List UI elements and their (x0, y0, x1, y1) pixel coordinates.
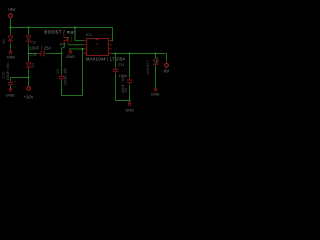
wire C4 column (61, 54, 63, 75)
svg-text:C8: C8 (124, 88, 128, 93)
wire +9V stub down (10, 18, 12, 27)
op-amp IC1 body (87, 39, 109, 56)
node +9V junction (9, 26, 11, 28)
svg-text:+18V: +18V (24, 94, 34, 99)
wire pin3 GND row (69, 48, 84, 50)
power -9V (166, 60, 168, 63)
svg-text:1N5817: 1N5817 (146, 60, 150, 75)
wire pin2 row (68, 44, 84, 46)
wire C8 column bottom (129, 85, 131, 100)
svg-text:D10: D10 (155, 57, 159, 63)
node junction D10 (154, 52, 156, 54)
wire C8 column top (129, 54, 131, 78)
wire D2 column top (28, 28, 30, 35)
svg-text:C10: C10 (1, 71, 5, 78)
svg-text:GND: GND (6, 92, 15, 97)
wire D10 column (155, 54, 157, 59)
wire pin1 row (75, 28, 84, 41)
wire D10 bottom (155, 65, 157, 87)
wire C15 row right (46, 53, 61, 55)
diode D10 (153, 60, 157, 66)
node junction C8 (128, 52, 130, 54)
node junction C3 row (27, 76, 29, 78)
svg-text:IC1: IC1 (86, 32, 92, 37)
wire C3 row (11, 77, 29, 79)
IC pins left (84, 41, 87, 54)
node junction x82.5 (81, 48, 83, 50)
wire C11 column top (115, 54, 117, 68)
node junction C15 row (27, 52, 29, 54)
svg-text:C4: C4 (56, 69, 60, 74)
wire D1 to ground (10, 44, 12, 49)
svg-text:2: 2 (71, 39, 73, 43)
svg-text:GND: GND (66, 54, 75, 59)
svg-text:10uF / 25v: 10uF / 25v (29, 45, 52, 50)
wire C3 column (10, 78, 12, 81)
jumper JP4 (64, 34, 69, 45)
wire C15 row left (29, 53, 38, 55)
node junction x75 (74, 26, 76, 28)
svg-text:MAX1044 | LT1054: MAX1044 | LT1054 (86, 56, 125, 61)
node junction GND right (128, 99, 130, 101)
svg-text:+: + (63, 69, 65, 73)
wire C11 column bottom (116, 74, 130, 100)
capacitor C8 (127, 77, 132, 85)
power +9V (9, 14, 13, 18)
capacitor C3 (8, 80, 13, 85)
node junction x28 (27, 26, 29, 28)
node junction C4 top (60, 52, 62, 54)
svg-text:GND: GND (151, 91, 160, 96)
svg-text:D2: D2 (31, 40, 35, 44)
capacitor C4 (59, 74, 64, 81)
wire pin8 to rail (111, 28, 112, 41)
ground G5 (9, 89, 12, 92)
wire jumper to node (62, 43, 65, 54)
ground G4 (128, 101, 131, 106)
svg-text:BOOST / max: BOOST / max (44, 29, 76, 34)
wire -9V column (166, 54, 168, 61)
IC pins right (109, 41, 112, 54)
svg-text:C11: C11 (118, 63, 125, 67)
capacitor C11 (113, 67, 119, 75)
svg-text:GND: GND (125, 107, 134, 112)
svg-text:GND: GND (7, 54, 16, 59)
node junction C11 (114, 52, 116, 54)
ground G3 (154, 88, 157, 92)
capacitor C15 (37, 51, 46, 57)
wire pin5 output row (112, 53, 167, 55)
diode D1 (8, 34, 12, 44)
ground G1 bowtie (9, 49, 12, 54)
power +18V (28, 85, 30, 88)
svg-text:100uF / 16v: 100uF / 16v (6, 63, 10, 81)
svg-text:-9V: -9V (163, 68, 170, 73)
wire x28 middle (28, 45, 30, 61)
wire x28 lower (28, 69, 30, 86)
wire C4 bottom to U (62, 49, 83, 96)
wire D1 column top (10, 28, 12, 35)
diode D2 (26, 34, 30, 45)
svg-text:D3: D3 (31, 63, 35, 67)
svg-text:+9V: +9V (8, 7, 16, 12)
wire C3 to ground (10, 85, 12, 88)
ground G2 (69, 49, 72, 54)
wire +9V rail (11, 27, 113, 29)
svg-text:D1: D1 (2, 39, 6, 43)
diode D3 (26, 61, 30, 69)
svg-text:+: + (14, 80, 16, 84)
svg-text:C15: C15 (29, 52, 37, 57)
